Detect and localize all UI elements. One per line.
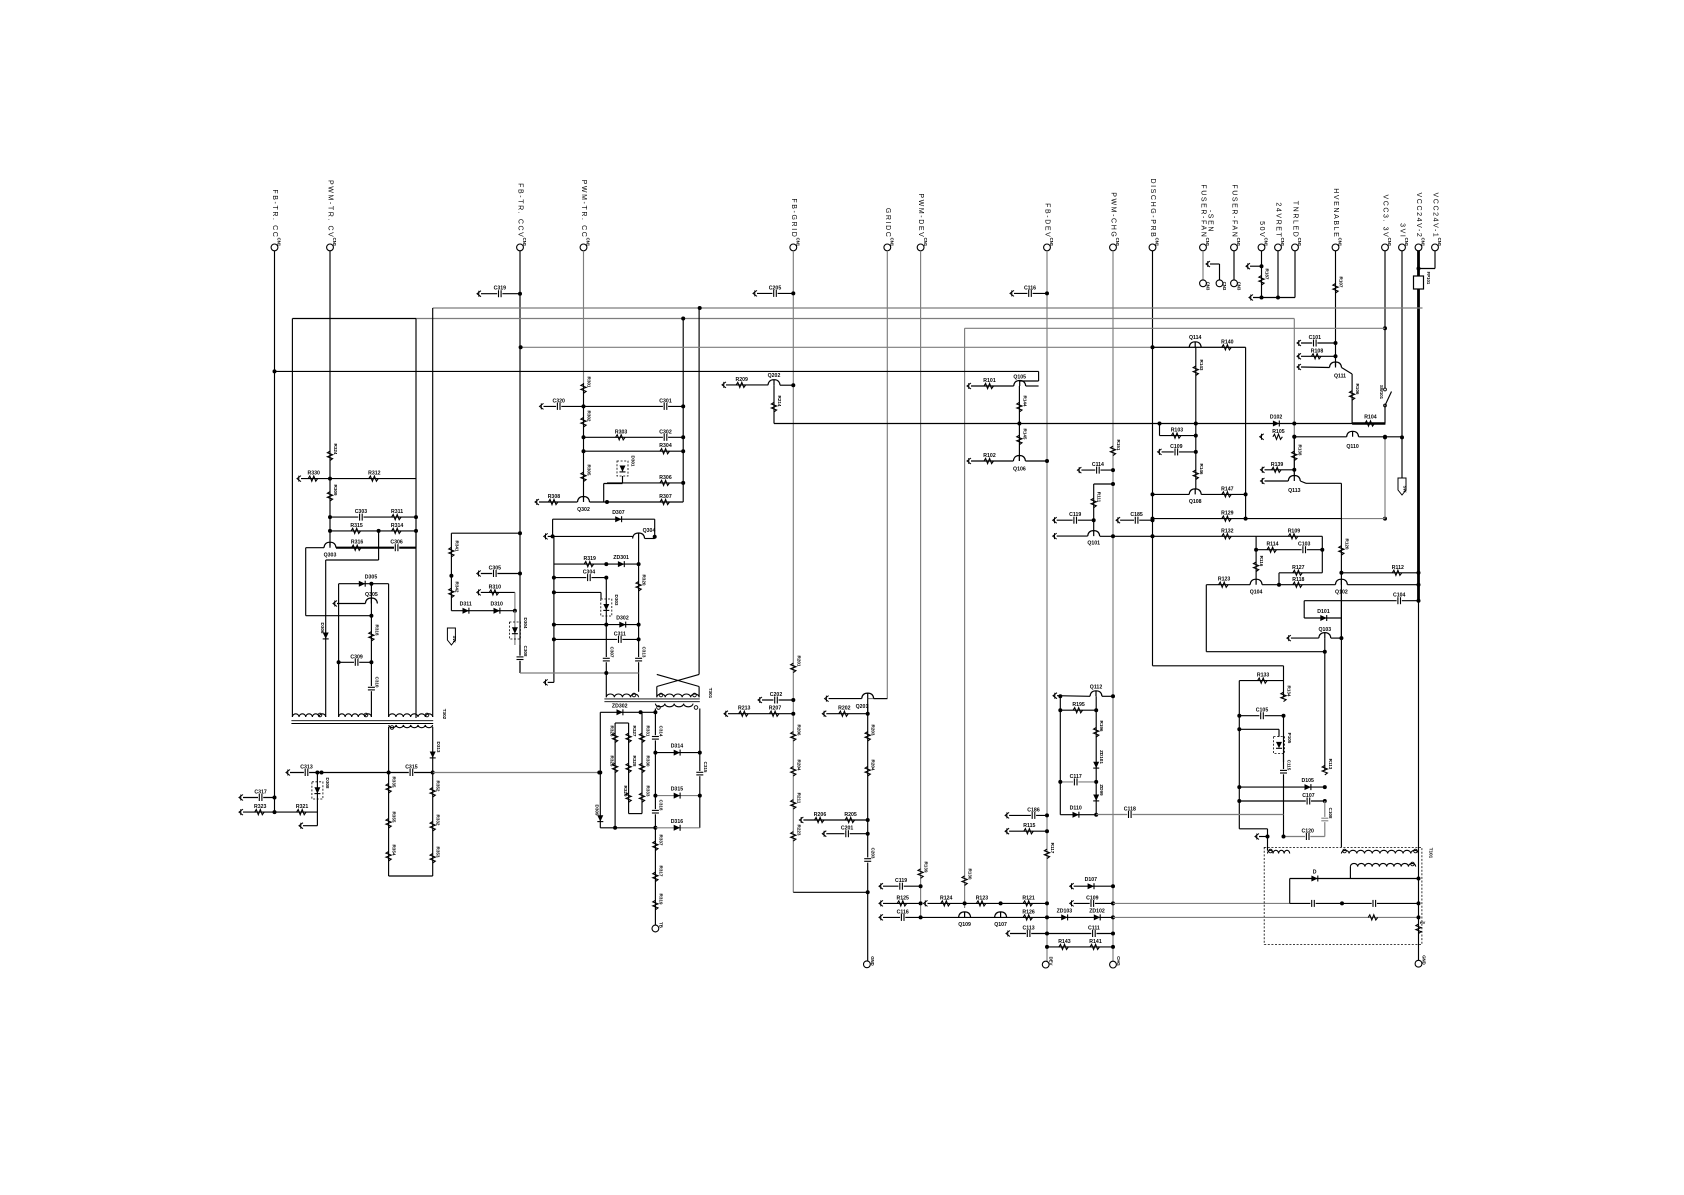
resistor R303 (616, 435, 626, 440)
svg-text:D110: D110 (1070, 806, 1082, 812)
resistor R101 (984, 383, 994, 388)
svg-text:R329: R329 (623, 786, 628, 797)
transistor Q101 (1088, 531, 1100, 537)
svg-text:R307: R307 (659, 494, 672, 500)
svg-text:R321: R321 (296, 804, 309, 810)
wire T301 sec rails (654, 709, 656, 828)
svg-text:D306: D306 (320, 623, 325, 634)
capacitor C109b (1070, 900, 1074, 906)
terminal GND right (1415, 960, 1422, 967)
svg-text:R306: R306 (659, 475, 672, 481)
svg-text:Q302: Q302 (577, 507, 590, 513)
wire R109 box (1256, 535, 1322, 537)
resistor R321 (297, 810, 307, 815)
svg-text:R327: R327 (632, 726, 637, 737)
svg-text:C105: C105 (1256, 708, 1269, 714)
capacitor C186 (1005, 812, 1009, 818)
wire Q111 emitter (1342, 368, 1353, 375)
svg-text:Q106: Q106 (1013, 467, 1026, 473)
wire FBGRID bottom corner (793, 891, 867, 893)
svg-text:R207: R207 (769, 706, 782, 712)
transformer T101 top right coil (1341, 850, 1418, 853)
svg-text:R123: R123 (1218, 577, 1231, 583)
svg-text:C301: C301 (659, 398, 672, 404)
chevron R101 (967, 383, 971, 389)
svg-text:R223: R223 (796, 825, 801, 836)
svg-text:R355: R355 (392, 812, 397, 823)
wire grid col2 (628, 723, 630, 814)
svg-text:R141: R141 (1089, 939, 1102, 945)
diode D306 (323, 633, 329, 639)
transistor Q105 (1014, 381, 1026, 387)
svg-text:C306: C306 (390, 540, 403, 546)
diode D313 (430, 752, 436, 758)
svg-text:C118: C118 (1124, 807, 1136, 813)
transformer T301 primary coil1 (606, 694, 638, 697)
svg-text:PWM-CHG: PWM-CHG (1110, 192, 1117, 238)
svg-text:DEV: DEV (1049, 957, 1054, 966)
capacitor C116b (900, 913, 905, 921)
svg-text:R211: R211 (796, 793, 801, 804)
svg-text:R116: R116 (1259, 556, 1264, 567)
capacitor C120 (1305, 833, 1310, 841)
wire C308 bottom row (520, 672, 639, 674)
svg-text:R310: R310 (489, 584, 502, 590)
svg-text:CN1: CN1 (923, 238, 928, 247)
resistor R141 (1090, 944, 1100, 949)
wire FUSER-FAN stub (1233, 251, 1235, 280)
svg-text:GND: GND (870, 956, 875, 966)
resistor R196 (1094, 728, 1099, 738)
resistor R330b (639, 763, 644, 773)
svg-text:GRIDC: GRIDC (884, 208, 891, 239)
svg-text:R146: R146 (1199, 464, 1204, 475)
wire Q303 collector loop (306, 547, 324, 549)
transformer T302 core (291, 720, 433, 722)
wire T101 D row (1290, 878, 1419, 880)
resistor R304v (865, 767, 870, 777)
wire 24VRET vertical (1277, 251, 1279, 298)
resistor R332 (430, 822, 435, 832)
diode D316 (674, 825, 680, 831)
wire PWM-TR.CV vertical (329, 251, 331, 546)
wire C201 row (822, 831, 826, 837)
capacitor C313b (638, 639, 640, 691)
capacitor C109 (1158, 449, 1162, 455)
diode D302 (619, 622, 625, 628)
svg-text:R134: R134 (1287, 686, 1292, 697)
svg-text:R121: R121 (1022, 895, 1035, 901)
wire grid bottom (600, 827, 655, 829)
svg-text:ZD101: ZD101 (1099, 750, 1104, 764)
transistor Q104 (1250, 579, 1262, 585)
capacitor C310 (367, 686, 375, 691)
capacitor C108 (1324, 801, 1326, 837)
svg-text:Q110: Q110 (1346, 444, 1359, 450)
svg-text:R101: R101 (983, 378, 996, 384)
wire FB-GRID vertical (792, 251, 794, 893)
svg-text:R332: R332 (436, 815, 441, 826)
svg-text:CN1: CN1 (1236, 238, 1241, 247)
wire Q108 base (1153, 493, 1190, 495)
svg-text:Q107: Q107 (994, 922, 1007, 928)
svg-text:SW101: SW101 (1379, 385, 1384, 400)
resistor R143b (1059, 944, 1069, 949)
wire C116b row (879, 914, 883, 920)
wire grid left rail (599, 712, 601, 828)
wire PWM-CHG vertical (1112, 251, 1114, 961)
wire box right edge (415, 319, 417, 719)
wire bus B y318.5 (416, 318, 1294, 320)
svg-text:R126: R126 (1022, 909, 1035, 915)
svg-text:24VRET: 24VRET (1275, 202, 1282, 238)
zener ZD102 (1094, 914, 1100, 920)
transistor Q102 (1335, 579, 1347, 585)
wire grid col3 (641, 712, 643, 813)
wire R133 left rail (1238, 681, 1240, 829)
capacitor C115 (1283, 754, 1285, 815)
wire FB-TR.CCV vertical (519, 251, 521, 673)
wire R202 row (822, 711, 826, 717)
wire TB rail (654, 828, 656, 925)
resistor R114 (1267, 547, 1277, 552)
svg-text:GND: GND (1422, 955, 1427, 965)
svg-text:C305: C305 (489, 566, 502, 572)
svg-text:C315: C315 (703, 762, 708, 773)
diode D102 (1273, 421, 1279, 427)
resistor R113 (1322, 765, 1327, 775)
capacitor C305 (492, 570, 497, 578)
svg-text:ZD103: ZD103 (1057, 908, 1073, 914)
resistor R329 (626, 793, 631, 803)
wire Q103 emitter right (1331, 637, 1342, 639)
svg-text:T302: T302 (442, 709, 447, 720)
resistor R120 (1339, 546, 1344, 556)
resistor R314 (392, 528, 402, 533)
wire Q114 right rail (1245, 347, 1247, 518)
svg-text:R352: R352 (436, 781, 441, 792)
transistor Q108 (1189, 489, 1201, 495)
wire C309 row (339, 661, 372, 663)
svg-text:R195: R195 (1072, 702, 1085, 708)
resistor R143 (1195, 347, 1197, 423)
resistor R115 (1005, 828, 1009, 834)
resistor R105 (1260, 434, 1264, 440)
svg-text:R120: R120 (1344, 539, 1349, 550)
wire 3VI vertical (1401, 251, 1403, 478)
wire R315 row (330, 530, 416, 532)
resistor R342 (449, 588, 454, 598)
svg-text:R328: R328 (632, 756, 637, 767)
svg-text:CN1: CN1 (1387, 238, 1392, 247)
wire Q103 bottom row (1206, 651, 1325, 653)
resistor R330 (308, 476, 318, 481)
wire C313 row (286, 770, 290, 776)
wire Q114 row / bus F (521, 346, 1246, 348)
resistor T101 r1 (1368, 915, 1378, 920)
svg-text:D313: D313 (436, 742, 441, 753)
wire Q110 emitter row (1359, 436, 1402, 438)
wire R125 row (879, 900, 883, 906)
wire Q102 emitter row (1347, 584, 1418, 586)
wire Q101 emitter / R132 row (1100, 535, 1256, 537)
diode D304 dashed (514, 611, 516, 645)
wire DISCHG-PRB vertical (1152, 251, 1154, 666)
zener ZD103 (1061, 914, 1067, 920)
wire C317 row (239, 795, 243, 801)
zener ZD101 (1093, 762, 1099, 768)
connector CN1 DISCHG-PRB (1149, 244, 1156, 251)
resistor R205 (845, 817, 855, 822)
resistor R324 (327, 451, 332, 461)
svg-text:D: D (1313, 870, 1317, 876)
svg-text:SW: SW (1403, 486, 1408, 493)
svg-text:C201: C201 (841, 826, 854, 832)
transistor Q304 (633, 533, 645, 539)
photocoupler P105 dashed (1274, 737, 1285, 754)
svg-text:R143: R143 (1199, 360, 1204, 371)
resistor R123b (976, 901, 986, 906)
resistor R305 (581, 472, 586, 482)
resistor R301 (581, 384, 586, 394)
svg-text:CN1: CN1 (890, 238, 895, 247)
svg-text:Q113: Q113 (1288, 488, 1301, 494)
wire ZD gray ext (1113, 916, 1260, 918)
svg-text:TNRLED: TNRLED (1292, 201, 1299, 239)
svg-text:R326: R326 (610, 726, 615, 737)
resistor R211v (791, 800, 796, 810)
svg-text:R109: R109 (1288, 528, 1301, 534)
wire TNRLED vertical (1294, 251, 1296, 298)
svg-text:R118: R118 (1292, 577, 1304, 583)
svg-text:D316: D316 (671, 819, 684, 825)
wire P105 branch (1239, 728, 1279, 730)
svg-text:R206: R206 (814, 812, 827, 818)
connector CN1 HVENABLE (1332, 244, 1339, 251)
svg-text:C115: C115 (1287, 760, 1292, 771)
resistor R315 (351, 528, 361, 533)
svg-text:CN1: CN1 (796, 238, 801, 247)
diode D310 (494, 608, 500, 614)
svg-text:R341: R341 (454, 541, 459, 552)
transistor Q113 (1288, 476, 1300, 482)
wire T302 sec rails (388, 727, 390, 773)
svg-text:Q201: Q201 (856, 704, 869, 710)
capacitor C119a (1053, 517, 1057, 523)
resistor R107 (1333, 284, 1338, 294)
svg-text:D308: D308 (325, 778, 330, 789)
connector CN1 VCC24V-2 (1415, 244, 1422, 251)
transformer T302 winding 2 (339, 714, 372, 717)
svg-text:ZD302: ZD302 (612, 703, 628, 709)
svg-text:C315: C315 (405, 765, 418, 771)
terminal DEV (1042, 961, 1049, 968)
diode D315 (674, 793, 680, 799)
wire Q106 emitter right (1025, 460, 1047, 462)
wire D303 branch (554, 591, 601, 593)
svg-text:C109: C109 (1086, 895, 1099, 901)
switch SW101 (1385, 392, 1392, 406)
chevron 50V top (1246, 263, 1250, 269)
svg-text:R127: R127 (1292, 565, 1305, 571)
svg-text:C308: C308 (523, 646, 528, 657)
capacitor C113 (1006, 931, 1010, 937)
transformer T301 primary coil2 (657, 694, 699, 697)
zener ZD301 (618, 561, 624, 567)
wire 50V-TNRLED bottom (1249, 295, 1253, 301)
svg-text:VCC3. 3V: VCC3. 3V (1382, 194, 1389, 238)
wire R195 row (1060, 709, 1096, 711)
wire grid col1 (614, 723, 616, 828)
resistor R127 (1293, 570, 1303, 575)
svg-text:CN1: CN1 (1280, 238, 1285, 247)
flag SW (1398, 478, 1406, 495)
svg-text:CN1: CN1 (277, 238, 282, 247)
wire FB-DEV vertical (1046, 251, 1048, 965)
svg-text:C309: C309 (350, 654, 363, 660)
transformer T101 primary coil (1268, 850, 1290, 853)
transistor Q201 (862, 693, 874, 699)
svg-text:R112: R112 (1392, 565, 1404, 571)
chevron C305 (477, 571, 481, 577)
capacitor C315v (696, 771, 704, 776)
svg-text:Q202: Q202 (768, 373, 781, 379)
svg-text:Q104: Q104 (1250, 590, 1263, 596)
resistor R109 (1288, 534, 1298, 539)
resistor R124 (941, 901, 951, 906)
svg-text:C101: C101 (1309, 335, 1322, 341)
svg-text:C313: C313 (300, 765, 313, 771)
svg-text:T301: T301 (708, 688, 713, 699)
chevron C120 left (1255, 834, 1259, 840)
wire C120 row (1284, 836, 1325, 838)
wire VCC33 low seg (1384, 437, 1386, 518)
svg-text:R102: R102 (983, 453, 996, 459)
wire C107 row (1239, 800, 1325, 802)
chevron R308 (535, 499, 539, 505)
svg-text:R113: R113 (1328, 759, 1333, 770)
svg-text:R139: R139 (924, 862, 929, 873)
wire bus C y328.3 (965, 327, 1385, 329)
resistor R310 (489, 590, 499, 595)
wire Q104 base (1206, 584, 1250, 586)
wire Q113 emitter (1300, 481, 1306, 483)
transformer T302 winding 1 (292, 714, 325, 717)
resistor R316 (352, 545, 362, 550)
svg-text:C119: C119 (895, 878, 907, 884)
resistor R323 (255, 810, 264, 815)
transistor Q110 (1347, 431, 1359, 437)
chevron Q201 base (825, 696, 829, 702)
resistor R187 (1259, 276, 1264, 286)
svg-text:R316: R316 (351, 540, 364, 546)
capacitor C114 (1077, 467, 1081, 473)
svg-text:HVENABLE: HVENABLE (1332, 188, 1339, 238)
svg-text:C307: C307 (609, 647, 614, 658)
svg-text:Q114: Q114 (1189, 335, 1202, 341)
resistor R106 (1350, 391, 1355, 401)
capacitor C118 (1127, 811, 1132, 819)
diode D106 (1311, 876, 1317, 882)
svg-text:Q103: Q103 (1318, 627, 1331, 633)
svg-text:CN3: CN3 (1222, 282, 1227, 291)
capacitor C119 (879, 883, 883, 889)
svg-text:CN1: CN1 (1404, 238, 1409, 247)
chevron Q101 base (1053, 533, 1057, 539)
resistor R204v (791, 767, 796, 777)
svg-text:Q109: Q109 (958, 922, 971, 928)
wire Q201 emitter rail (867, 704, 869, 961)
resistor R327 (626, 733, 631, 743)
wire C202 row (758, 697, 762, 703)
connector CN1 24VRET (1275, 244, 1282, 251)
connector CN1 VCC24V-1 (1432, 244, 1439, 251)
capacitor C317 (258, 794, 263, 802)
zener ZD103v (1093, 795, 1099, 801)
transistor Q109 (959, 912, 971, 918)
svg-text:C116: C116 (897, 909, 909, 915)
connector CN1 TNRLED (1292, 244, 1299, 251)
resistor R318 (369, 632, 374, 642)
wire C320 row (540, 403, 544, 409)
svg-text:R139: R139 (1271, 462, 1284, 468)
svg-text:T101: T101 (1429, 848, 1434, 859)
diode D314 (674, 750, 680, 756)
connector CN1 3VI (1399, 244, 1406, 251)
resistor chain R335 (388, 773, 390, 877)
capacitor C307 (605, 625, 607, 673)
svg-text:-SEN: -SEN (1207, 210, 1214, 233)
svg-text:CN1: CN1 (1437, 238, 1442, 247)
svg-text:ZD99: ZD99 (1099, 784, 1104, 796)
svg-text:D301: D301 (631, 456, 636, 467)
capacitor C308 (519, 645, 521, 673)
wire GRIDC vertical (886, 251, 888, 699)
capacitor C320 (556, 402, 561, 410)
wire C315 gray extension (433, 772, 600, 774)
resistor R353 (430, 854, 435, 864)
resistor R317 (653, 872, 658, 882)
capacitor C314 (651, 735, 659, 740)
resistor R309 (327, 492, 332, 502)
svg-text:C318: C318 (658, 800, 663, 811)
svg-text:C186: C186 (1027, 807, 1040, 813)
wire R304 row (584, 450, 684, 452)
resistor R223v (791, 832, 796, 842)
svg-text:C320: C320 (552, 398, 565, 404)
wire R341 top row (451, 532, 520, 534)
wire Q305 rail (370, 584, 372, 717)
chevron Q111 base (1297, 364, 1301, 370)
resistor R325 (613, 763, 618, 773)
resistor R117 (1044, 849, 1049, 859)
svg-text:VCC24V-2: VCC24V-2 (1415, 193, 1422, 239)
svg-text:R129: R129 (1221, 511, 1234, 517)
transistor Q114 (1189, 342, 1201, 348)
wire R213 row (724, 711, 728, 717)
capacitor C318 (651, 809, 659, 814)
svg-text:C111: C111 (1088, 926, 1100, 932)
svg-text:R213: R213 (738, 706, 751, 712)
svg-text:CHG: CHG (1116, 956, 1121, 966)
transistor Q106 (1013, 456, 1025, 462)
wire ZD row (1047, 916, 1113, 918)
svg-text:CN1: CN1 (1205, 238, 1210, 247)
svg-text:R319: R319 (658, 894, 663, 905)
diode D301 dashed (617, 461, 628, 476)
transistor Q112 (1090, 691, 1102, 697)
svg-text:R145: R145 (1022, 429, 1027, 440)
